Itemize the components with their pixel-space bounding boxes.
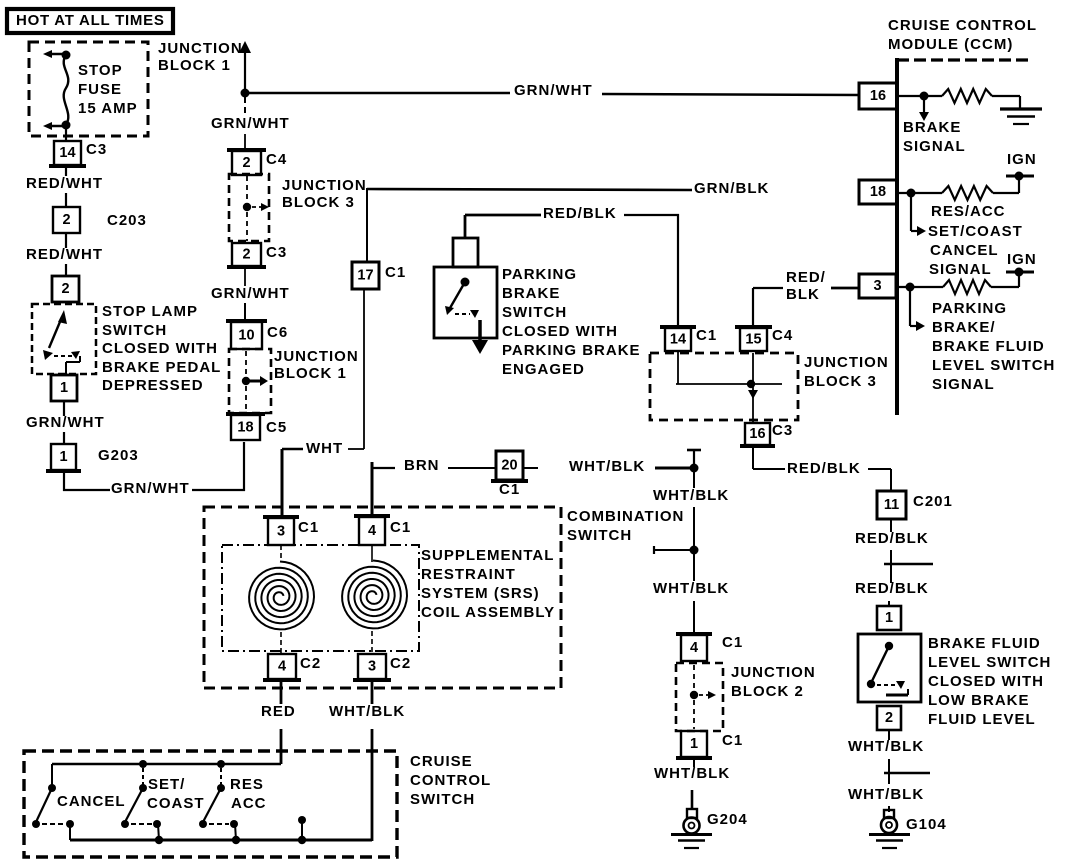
svg-text:SYSTEM (SRS): SYSTEM (SRS) bbox=[421, 585, 540, 602]
svg-text:COMBINATION: COMBINATION bbox=[567, 508, 684, 525]
wire GRN/BLK (to CCM pin 18) bbox=[367, 180, 769, 262]
resistor R1 (brake signal) bbox=[942, 89, 992, 103]
svg-text:GRN/BLK: GRN/BLK bbox=[694, 180, 769, 197]
stop lamp switch S1 (dashed box) bbox=[32, 304, 96, 375]
wire GRN/WHT main (to CCM pin 16) bbox=[245, 82, 860, 99]
svg-text:BLOCK 1: BLOCK 1 bbox=[274, 365, 347, 382]
node junction GRN/WHT bbox=[241, 89, 250, 98]
svg-text:SET/COAST: SET/COAST bbox=[928, 223, 1023, 240]
svg-text:C2: C2 bbox=[300, 655, 321, 672]
unused contact stub bbox=[298, 816, 306, 840]
svg-text:STOP LAMP: STOP LAMP bbox=[102, 303, 198, 320]
wire WHT/BLK label 2 bbox=[848, 786, 924, 812]
svg-text:3: 3 bbox=[368, 659, 376, 675]
svg-text:RES/ACC: RES/ACC bbox=[931, 203, 1006, 220]
svg-text:GRN/WHT: GRN/WHT bbox=[26, 414, 105, 431]
svg-text:JUNCTION: JUNCTION bbox=[282, 177, 367, 194]
connector 16 C3 bbox=[740, 423, 775, 446]
svg-text:C201: C201 bbox=[913, 493, 953, 510]
wire resistor to IGN 1 bbox=[993, 176, 1019, 193]
connector 2 stop lamp bbox=[52, 276, 79, 302]
svg-text:WHT/BLK: WHT/BLK bbox=[653, 487, 729, 504]
svg-text:10: 10 bbox=[238, 328, 254, 344]
combination switch label bbox=[567, 508, 684, 544]
svg-text:CANCEL: CANCEL bbox=[57, 793, 126, 810]
wire WHT from 17/C1 to SRS 3/C1 bbox=[282, 289, 364, 518]
svg-text:BLOCK 2: BLOCK 2 bbox=[731, 683, 804, 700]
cruise control module (CCM) label bbox=[888, 17, 1037, 53]
svg-text:BRAKE FLUID: BRAKE FLUID bbox=[932, 338, 1045, 355]
wire RED/BLK label 2 bbox=[855, 580, 929, 606]
svg-text:G203: G203 bbox=[98, 447, 139, 464]
SRS outer box (dashed) bbox=[204, 507, 561, 688]
wire G203 to junction column, GRN/WHT bbox=[63, 442, 245, 497]
svg-text:RED/WHT: RED/WHT bbox=[26, 175, 103, 192]
node junction pin16 bbox=[920, 92, 929, 101]
svg-text:1: 1 bbox=[885, 610, 893, 626]
connector 4 C1 (SRS) bbox=[354, 516, 390, 545]
svg-text:LEVEL SWITCH: LEVEL SWITCH bbox=[932, 357, 1055, 374]
wire RED/BLK from parking brake switch bbox=[465, 205, 679, 328]
svg-text:ENGAGED: ENGAGED bbox=[502, 361, 585, 378]
junction block 3 (dashed, middle) bbox=[650, 353, 798, 420]
svg-text:G104: G104 bbox=[906, 816, 947, 833]
resistor R3 (parking brake signal) bbox=[943, 280, 991, 294]
connector 11 C201 bbox=[877, 491, 906, 519]
wire WHT/BLK to G204 bbox=[654, 759, 730, 810]
res/acc signal text bbox=[928, 203, 1023, 278]
svg-text:BLOCK 3: BLOCK 3 bbox=[804, 373, 877, 390]
junction block 1 label bbox=[274, 348, 359, 382]
svg-text:GRN/WHT: GRN/WHT bbox=[211, 115, 290, 132]
connector 2 (fluid switch) bbox=[877, 706, 901, 730]
junction block 2 label bbox=[731, 664, 816, 700]
svg-text:C4: C4 bbox=[772, 327, 793, 344]
wire GRN/WHT label bbox=[63, 401, 65, 416]
wire WHT/BLK label bbox=[653, 472, 729, 548]
chassis ground (CCM) bbox=[1000, 109, 1042, 124]
svg-text:15: 15 bbox=[745, 332, 761, 348]
svg-text:RED/: RED/ bbox=[786, 269, 826, 286]
top rail bbox=[52, 751, 281, 768]
connector 2 C203 bbox=[53, 207, 80, 233]
svg-text:JUNCTION: JUNCTION bbox=[804, 354, 889, 371]
svg-text:1: 1 bbox=[690, 736, 698, 752]
svg-text:RESTRAINT: RESTRAINT bbox=[421, 566, 516, 583]
switch CANCEL bbox=[32, 764, 126, 840]
svg-text:BLOCK 1: BLOCK 1 bbox=[158, 57, 231, 74]
CCM pin 16 bbox=[859, 83, 897, 109]
svg-text:WHT/BLK: WHT/BLK bbox=[848, 786, 924, 803]
connector 2 C3 bbox=[227, 243, 266, 267]
svg-text:BRAKE: BRAKE bbox=[502, 285, 560, 302]
brake fluid level switch S3 bbox=[858, 634, 921, 702]
IGN terminal 2 bbox=[1006, 251, 1037, 277]
svg-text:DEPRESSED: DEPRESSED bbox=[102, 377, 204, 394]
junction block 2 (dashed) bbox=[676, 663, 723, 731]
connector 1 (fluid switch) bbox=[877, 606, 901, 630]
svg-text:BRAKE/: BRAKE/ bbox=[932, 319, 996, 336]
svg-text:1: 1 bbox=[60, 380, 68, 396]
resistor R2 (res/acc signal) bbox=[942, 186, 993, 200]
svg-text:SIGNAL: SIGNAL bbox=[929, 261, 992, 278]
svg-text:C203: C203 bbox=[107, 212, 147, 229]
svg-text:11: 11 bbox=[884, 497, 899, 513]
svg-text:3: 3 bbox=[277, 524, 285, 540]
svg-text:SIGNAL: SIGNAL bbox=[903, 138, 966, 155]
svg-text:2: 2 bbox=[62, 212, 70, 228]
svg-text:BRAKE: BRAKE bbox=[903, 119, 961, 136]
connector 18 C5 bbox=[226, 414, 265, 440]
hook arrow res/acc bbox=[911, 196, 926, 236]
svg-text:SET/: SET/ bbox=[148, 776, 185, 793]
svg-text:RED/WHT: RED/WHT bbox=[26, 246, 103, 263]
stop lamp switch text bbox=[102, 303, 221, 394]
svg-text:GRN/WHT: GRN/WHT bbox=[211, 285, 290, 302]
svg-text:2: 2 bbox=[242, 155, 250, 171]
svg-text:COAST: COAST bbox=[147, 795, 205, 812]
svg-text:2: 2 bbox=[242, 247, 250, 263]
cruise control switch box (dashed) bbox=[24, 751, 397, 857]
svg-text:20: 20 bbox=[501, 458, 517, 474]
wire resistor to IGN 2 bbox=[991, 272, 1019, 287]
svg-text:CANCEL: CANCEL bbox=[930, 242, 999, 259]
CCM pin 3 bbox=[859, 274, 896, 298]
cruise control switch label bbox=[410, 753, 491, 808]
svg-text:C1: C1 bbox=[298, 519, 319, 536]
junction block 1 (dashed, left) bbox=[229, 349, 271, 413]
svg-text:SIGNAL: SIGNAL bbox=[932, 376, 995, 393]
junction block 3 internal node bbox=[243, 176, 269, 241]
connector 3 C1 (SRS) bbox=[263, 517, 299, 545]
connector 17 C1 bbox=[352, 262, 379, 289]
wire GRN/WHT label bbox=[211, 268, 290, 322]
svg-text:C3: C3 bbox=[86, 141, 107, 158]
svg-text:PARKING: PARKING bbox=[502, 266, 577, 283]
svg-text:COIL ASSEMBLY: COIL ASSEMBLY bbox=[421, 604, 555, 621]
svg-text:CLOSED WITH: CLOSED WITH bbox=[102, 340, 218, 357]
svg-text:C4: C4 bbox=[266, 151, 287, 168]
ground G204 bbox=[671, 809, 748, 848]
junction block 1 internal node bbox=[242, 351, 268, 413]
svg-text:RED/BLK: RED/BLK bbox=[855, 530, 929, 547]
svg-text:18: 18 bbox=[870, 184, 886, 200]
svg-text:WHT: WHT bbox=[306, 440, 343, 457]
svg-text:3: 3 bbox=[873, 278, 881, 294]
svg-text:MODULE (CCM): MODULE (CCM) bbox=[888, 36, 1013, 53]
combination switch terminal (top) bbox=[687, 450, 701, 473]
svg-text:JUNCTION: JUNCTION bbox=[274, 348, 359, 365]
svg-text:4: 4 bbox=[690, 640, 698, 656]
svg-text:RED/BLK: RED/BLK bbox=[787, 460, 861, 477]
junction block 3 internal wires bbox=[676, 351, 782, 423]
branch tick bbox=[884, 563, 933, 565]
svg-text:JUNCTION: JUNCTION bbox=[731, 664, 816, 681]
svg-text:2: 2 bbox=[885, 710, 893, 726]
wire RED to cruise switch bbox=[261, 681, 296, 764]
branch tick 2 bbox=[884, 772, 930, 774]
connector 1 C1 (JB2) bbox=[676, 731, 712, 758]
connector 14 C3 bbox=[49, 141, 86, 166]
node junction pin18 bbox=[907, 189, 916, 198]
junction block 1 label (top) bbox=[158, 40, 243, 74]
svg-text:WHT/BLK: WHT/BLK bbox=[569, 458, 645, 475]
svg-text:CONTROL: CONTROL bbox=[410, 772, 491, 789]
hot-at-all-times label box bbox=[7, 9, 173, 33]
svg-text:RES: RES bbox=[230, 776, 264, 793]
connector 3 C2 (SRS) bbox=[353, 654, 391, 680]
wire pin3 to resistor bbox=[896, 286, 943, 288]
switch RES/ACC bbox=[199, 768, 267, 840]
svg-text:CLOSED WITH: CLOSED WITH bbox=[928, 673, 1044, 690]
combination switch branch bbox=[654, 546, 699, 555]
svg-text:C3: C3 bbox=[266, 244, 287, 261]
parking brake switch S2 bbox=[434, 215, 497, 354]
svg-text:RED/BLK: RED/BLK bbox=[855, 580, 929, 597]
wire down to 2/C4 with GRN/WHT label bbox=[211, 97, 290, 151]
svg-text:14: 14 bbox=[670, 332, 686, 348]
svg-text:4: 4 bbox=[278, 659, 286, 675]
svg-text:SWITCH: SWITCH bbox=[567, 527, 632, 544]
wire RED/BLK from 15/C4 to CCM pin 3 bbox=[753, 269, 859, 326]
svg-text:14: 14 bbox=[59, 145, 75, 161]
svg-text:BRAKE PEDAL: BRAKE PEDAL bbox=[102, 359, 221, 376]
parking brake switch text bbox=[502, 266, 641, 378]
SRS inner box (dash-dot) bbox=[222, 545, 419, 651]
svg-text:18: 18 bbox=[237, 420, 253, 436]
svg-text:C1: C1 bbox=[390, 519, 411, 536]
svg-text:HOT AT ALL TIMES: HOT AT ALL TIMES bbox=[16, 12, 165, 29]
svg-text:BRN: BRN bbox=[404, 457, 440, 474]
svg-text:C1: C1 bbox=[499, 481, 520, 498]
svg-text:WHT/BLK: WHT/BLK bbox=[329, 703, 405, 720]
svg-text:RED/BLK: RED/BLK bbox=[543, 205, 617, 222]
svg-text:4: 4 bbox=[368, 523, 376, 539]
connector 10 C6 bbox=[226, 321, 267, 349]
wire WHT/BLK to combination switch bbox=[523, 458, 694, 475]
svg-text:IGN: IGN bbox=[1007, 151, 1037, 168]
wire resistor to chassis ground bbox=[992, 96, 1020, 109]
svg-text:C6: C6 bbox=[267, 324, 288, 341]
svg-text:C1: C1 bbox=[722, 732, 743, 749]
svg-text:2: 2 bbox=[61, 281, 69, 297]
wire RED/BLK to C201 bbox=[753, 447, 891, 491]
CCM boundary bbox=[897, 58, 1030, 415]
wire fuse to 14/C3 bbox=[65, 129, 67, 141]
CCM pin 18 bbox=[859, 180, 897, 204]
svg-text:C5: C5 bbox=[266, 419, 287, 436]
connector 4 C1 (JB2) bbox=[676, 634, 712, 661]
parking brake signal text bbox=[932, 300, 1055, 393]
stop fuse box (dashed) bbox=[29, 42, 148, 136]
arrow brake signal bbox=[919, 100, 929, 121]
svg-text:WHT/BLK: WHT/BLK bbox=[653, 580, 729, 597]
wire BRN bbox=[372, 457, 496, 517]
connector 15 C4 bbox=[735, 327, 772, 351]
wire label RED/WHT 2 bbox=[65, 233, 67, 248]
wires coils to C2 connectors bbox=[281, 631, 372, 655]
connector 1 stop lamp bbox=[51, 375, 77, 401]
svg-text:JUNCTION: JUNCTION bbox=[158, 40, 243, 57]
brake signal text bbox=[903, 119, 966, 155]
svg-text:CRUISE: CRUISE bbox=[410, 753, 473, 770]
svg-text:BLK: BLK bbox=[786, 286, 820, 303]
connector 2 C4 bbox=[227, 150, 266, 175]
connector 20 C1 bbox=[491, 451, 528, 481]
svg-text:SWITCH: SWITCH bbox=[102, 322, 167, 339]
wire WHT/BLK to cruise switch bbox=[329, 681, 405, 841]
wire pin16 to resistor bbox=[897, 95, 942, 97]
wire label RED/WHT bbox=[65, 167, 67, 176]
svg-text:16: 16 bbox=[870, 88, 886, 104]
svg-text:FLUID LEVEL: FLUID LEVEL bbox=[928, 711, 1036, 728]
svg-text:C3: C3 bbox=[772, 422, 793, 439]
svg-text:PARKING BRAKE: PARKING BRAKE bbox=[502, 342, 641, 359]
coil L2 (right spiral) bbox=[342, 545, 407, 628]
svg-text:C1: C1 bbox=[696, 327, 717, 344]
svg-text:C2: C2 bbox=[390, 655, 411, 672]
svg-text:GRN/WHT: GRN/WHT bbox=[111, 480, 190, 497]
junction block 3 label bbox=[804, 354, 889, 390]
switch SET/COAST bbox=[121, 768, 205, 840]
svg-text:LOW BRAKE: LOW BRAKE bbox=[928, 692, 1030, 709]
svg-text:BRAKE FLUID: BRAKE FLUID bbox=[928, 635, 1041, 652]
ground connector 1 G203 bbox=[46, 444, 81, 471]
svg-text:15 AMP: 15 AMP bbox=[78, 100, 138, 117]
junction block 2 internal node bbox=[690, 665, 716, 729]
fuse F stop fuse 15A bbox=[43, 50, 138, 130]
svg-text:CLOSED WITH: CLOSED WITH bbox=[502, 323, 618, 340]
svg-text:FUSE: FUSE bbox=[78, 81, 122, 98]
svg-text:PARKING: PARKING bbox=[932, 300, 1007, 317]
svg-text:C1: C1 bbox=[722, 634, 743, 651]
node junction pin3 bbox=[906, 283, 915, 292]
hook arrow parking brake bbox=[910, 290, 925, 331]
svg-text:SUPPLEMENTAL: SUPPLEMENTAL bbox=[421, 547, 554, 564]
svg-text:ACC: ACC bbox=[231, 795, 267, 812]
svg-text:16: 16 bbox=[749, 426, 765, 442]
svg-text:SWITCH: SWITCH bbox=[410, 791, 475, 808]
svg-text:1: 1 bbox=[59, 449, 67, 465]
svg-text:CRUISE CONTROL: CRUISE CONTROL bbox=[888, 17, 1037, 34]
svg-text:RED: RED bbox=[261, 703, 296, 720]
IGN terminal 1 bbox=[1006, 151, 1037, 181]
bottom rail bbox=[70, 836, 372, 844]
svg-text:SWITCH: SWITCH bbox=[502, 304, 567, 321]
connector 4 C2 (SRS) bbox=[263, 654, 301, 680]
brake fluid level switch text bbox=[928, 635, 1051, 728]
wire arrow up junction block 1 bbox=[239, 41, 251, 92]
svg-text:IGN: IGN bbox=[1007, 251, 1037, 268]
ground G104 bbox=[869, 810, 947, 848]
svg-text:STOP: STOP bbox=[78, 62, 123, 79]
junction block 3 (dashed, left) bbox=[229, 174, 269, 241]
wire WHT/BLK label bbox=[848, 730, 924, 784]
svg-text:WHT/BLK: WHT/BLK bbox=[654, 765, 730, 782]
wire RED/BLK label bbox=[855, 520, 929, 583]
connector 14 C1 bbox=[660, 327, 696, 351]
svg-text:G204: G204 bbox=[707, 811, 748, 828]
SRS text bbox=[421, 547, 555, 621]
junction block 3 label bbox=[282, 177, 367, 211]
svg-text:WHT/BLK: WHT/BLK bbox=[848, 738, 924, 755]
svg-text:C1: C1 bbox=[385, 264, 406, 281]
svg-text:BLOCK 3: BLOCK 3 bbox=[282, 194, 355, 211]
svg-text:GRN/WHT: GRN/WHT bbox=[514, 82, 593, 99]
wire pin18 to resistor bbox=[897, 192, 942, 194]
svg-text:17: 17 bbox=[357, 268, 373, 284]
wire WHT/BLK label 2 bbox=[653, 553, 729, 635]
svg-text:LEVEL SWITCH: LEVEL SWITCH bbox=[928, 654, 1051, 671]
coil L1 (left spiral) bbox=[249, 545, 314, 629]
